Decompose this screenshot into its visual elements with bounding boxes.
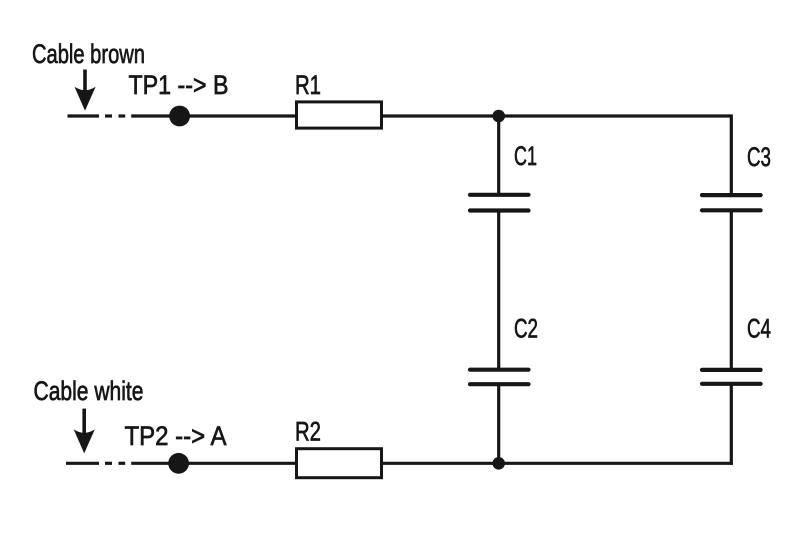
capacitor C2	[470, 370, 529, 385]
svg-text:C3: C3	[747, 142, 771, 172]
wire R1 to top-right corner	[382, 114, 732, 117]
wire C1 to C2	[497, 211, 500, 370]
wire R2 to bottom-right corner	[382, 462, 733, 465]
wire bottom-left lead dash 2	[119, 462, 126, 465]
resistor R2	[297, 449, 382, 478]
wire middle rail junction to C1	[497, 116, 500, 195]
wire right rail top corner to C3	[730, 114, 733, 195]
capacitor C3	[702, 195, 761, 210]
node junction bottom	[492, 457, 505, 470]
svg-text:TP1 --> B: TP1 --> B	[129, 70, 229, 100]
svg-text:Cable brown: Cable brown	[32, 39, 145, 69]
wire bottom-left lead dash 1	[105, 462, 112, 465]
test point TP2	[168, 453, 189, 474]
wire top-left lead dash 1	[105, 114, 112, 117]
wire top-left lead dash 2	[119, 114, 126, 117]
svg-text:C4: C4	[747, 314, 771, 344]
node junction top	[492, 110, 505, 123]
svg-text:C2: C2	[514, 314, 538, 344]
wire C3 to C4	[730, 210, 733, 370]
capacitor C1	[470, 195, 529, 211]
test point TP1	[169, 106, 190, 127]
capacitor C4	[702, 370, 761, 384]
svg-text:Cable white: Cable white	[34, 376, 144, 406]
resistor R1	[297, 102, 382, 128]
wire bottom-left lead solid	[66, 462, 99, 465]
svg-text:R1: R1	[295, 70, 321, 100]
svg-text:C1: C1	[514, 141, 537, 171]
wire top-left lead solid	[68, 114, 100, 117]
arrow cable white entry	[74, 409, 95, 454]
svg-text:R2: R2	[295, 417, 321, 447]
wire C2 to bottom junction	[497, 384, 500, 463]
svg-text:TP2 --> A: TP2 --> A	[125, 421, 227, 451]
wire TP1 to R1	[131, 114, 296, 117]
wire TP2 to R2	[131, 462, 296, 465]
arrow cable brown entry	[75, 70, 96, 111]
wire C4 to bottom-right corner	[730, 384, 733, 465]
